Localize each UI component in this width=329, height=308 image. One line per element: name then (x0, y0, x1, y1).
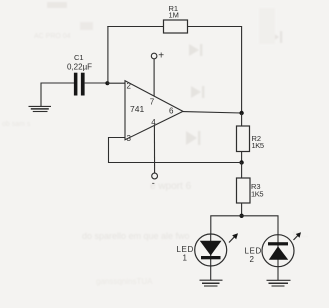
node C junction dot (239, 160, 243, 164)
V+ terminal (151, 53, 157, 59)
svg-text:1M: 1M (169, 10, 179, 19)
resistor R1 (164, 20, 188, 33)
pin 4 wire to V- (153, 126, 155, 174)
svg-text:1K5: 1K5 (252, 141, 264, 150)
LED2 label (245, 247, 262, 265)
svg-text:+: + (158, 51, 164, 62)
LED1 arrow (229, 237, 235, 243)
R2 labels (252, 134, 264, 150)
resistor R2 (237, 126, 250, 152)
wire node B to R2 (241, 113, 243, 126)
wire node A up (107, 27, 109, 85)
pin 7 wire to V+ (153, 59, 155, 96)
op-amp U1 triangle (125, 81, 183, 140)
LED1 ground (200, 266, 223, 286)
svg-text:741: 741 (130, 104, 144, 114)
R1 labels (169, 4, 179, 19)
svg-text:2: 2 (127, 82, 132, 91)
LED1 (195, 233, 238, 266)
svg-text:0,22µF: 0,22µF (67, 63, 92, 72)
svg-text:3: 3 (127, 134, 132, 143)
svg-text:1K5: 1K5 (251, 190, 263, 199)
wire node D to LED2 (242, 216, 278, 235)
svg-text:4: 4 (151, 118, 156, 127)
wire node C to R3 (241, 163, 243, 179)
LED2 (262, 232, 301, 267)
svg-text:ob sam s: ob sam s (2, 121, 31, 128)
C1 value labels (67, 53, 92, 72)
svg-text:1: 1 (183, 254, 188, 263)
svg-text:e wport 6: e wport 6 (150, 181, 192, 192)
wire C1 to node A (85, 82, 108, 84)
wire R3 to node D (241, 203, 243, 216)
wire node D to LED1 (211, 216, 242, 234)
ground (left, input) (29, 83, 52, 112)
svg-text:C1: C1 (74, 53, 84, 62)
wire node A to op-amp pin 2 (107, 82, 125, 84)
svg-text:7: 7 (150, 97, 155, 106)
resistor R3 (237, 178, 251, 203)
wire ground to C1 (41, 82, 74, 84)
LED2 arrow (294, 236, 298, 241)
svg-text:6: 6 (169, 107, 174, 116)
node A junction dot (105, 81, 109, 85)
svg-text:AC PRO 04: AC PRO 04 (34, 33, 71, 40)
node D junction dot (239, 214, 243, 218)
LED1 label (177, 245, 194, 263)
wire top left to R1 (107, 26, 163, 28)
svg-text:ganssqninsTUA: ganssqninsTUA (96, 277, 153, 286)
node B junction dot (output) (239, 111, 243, 115)
wire R2 to node C (241, 152, 243, 163)
wire R1 to top right corner and down (188, 27, 242, 114)
feedback wire bottom: node C to pin 3 loop (109, 138, 242, 163)
LED2 ground (267, 267, 291, 286)
R3 labels (251, 182, 263, 199)
svg-text:do sparello em que ale fwo: do sparello em que ale fwo (82, 231, 190, 241)
capacitor C1 (74, 73, 85, 96)
svg-text:-: - (152, 178, 155, 188)
V- terminal (152, 173, 158, 179)
pin 6 output wire (183, 112, 242, 113)
svg-text:2: 2 (250, 255, 255, 264)
